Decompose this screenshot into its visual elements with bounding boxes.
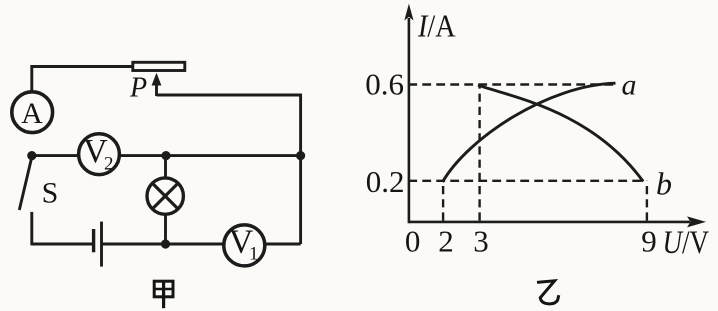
svg-text:0: 0	[405, 224, 421, 259]
svg-text:1: 1	[249, 244, 259, 265]
curve a	[443, 83, 616, 182]
svg-text:3: 3	[473, 224, 489, 259]
node: left middle junction	[27, 151, 36, 160]
rheostat slider arrow P	[152, 73, 162, 96]
voltmeter V2	[79, 133, 120, 175]
dashed line I=0.6	[408, 83, 616, 85]
graph y-axis	[404, 4, 413, 224]
dashed line U=3	[478, 85, 480, 221]
svg-text:a: a	[622, 69, 637, 102]
node: right middle junction	[296, 151, 305, 160]
svg-text:P: P	[129, 73, 147, 104]
graph x-axis	[409, 216, 706, 227]
svg-text:0.2: 0.2	[366, 164, 405, 199]
svg-text:I/A: I/A	[417, 8, 456, 44]
label yi (乙)	[537, 281, 559, 304]
wire: ammeter top to rheostat left	[32, 67, 132, 94]
svg-text:b: b	[656, 166, 672, 202]
svg-text:0.6: 0.6	[365, 67, 404, 102]
lamp L	[147, 178, 183, 214]
svg-text:9: 9	[641, 224, 657, 259]
voltmeter V1	[224, 224, 265, 266]
ammeter A	[12, 92, 53, 133]
svg-text:2: 2	[104, 154, 114, 175]
wire: slider to right vertical and down to V1	[157, 95, 301, 244]
curve b	[478, 85, 643, 181]
wire: middle row	[32, 154, 301, 157]
node: lamp top junction	[161, 151, 170, 160]
svg-text:A: A	[21, 97, 43, 130]
wire: lamp branch vertical	[164, 156, 167, 244]
switch S lower terminal wire	[30, 212, 33, 246]
node: battery-lamp bottom junction	[161, 239, 170, 248]
switch S blade	[19, 157, 32, 210]
label jia (甲)	[154, 281, 173, 308]
battery: long thin plate	[100, 222, 103, 267]
wire: bottom row left	[32, 243, 93, 246]
svg-text:2: 2	[438, 224, 454, 259]
dashed line U=2	[442, 181, 444, 221]
battery: short thick plate	[92, 229, 95, 252]
svg-text:U/V: U/V	[663, 224, 710, 261]
rheostat R body	[133, 62, 185, 70]
wire: bottom row right	[102, 243, 301, 246]
dashed line U=9	[646, 181, 648, 221]
dashed line I=0.2	[408, 180, 644, 182]
svg-text:S: S	[42, 177, 59, 210]
